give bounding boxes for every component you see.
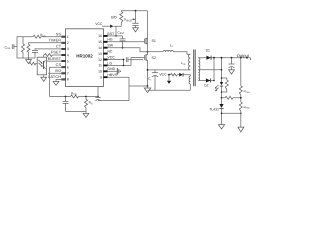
svg-text:BST: BST bbox=[107, 32, 115, 36]
svg-text:NC: NC bbox=[107, 50, 113, 54]
svg-text:11: 11 bbox=[98, 64, 102, 68]
svg-text:CT: CT bbox=[56, 45, 62, 49]
svg-text:LATCH: LATCH bbox=[48, 75, 61, 79]
svg-text:4: 4 bbox=[67, 53, 69, 57]
svg-text:SW: SW bbox=[107, 44, 113, 48]
svg-text:Output: Output bbox=[237, 53, 250, 58]
svg-text:FSET: FSET bbox=[51, 51, 62, 55]
svg-text:2: 2 bbox=[67, 41, 69, 45]
svg-text:9: 9 bbox=[100, 75, 102, 79]
svg-text:3: 3 bbox=[67, 47, 69, 51]
svg-text:S1: S1 bbox=[152, 39, 156, 43]
svg-text:m: m bbox=[183, 63, 185, 66]
svg-text:HR1002: HR1002 bbox=[76, 54, 93, 59]
svg-text:TL431: TL431 bbox=[209, 107, 219, 111]
svg-text:BURST: BURST bbox=[48, 57, 62, 61]
svg-text:15: 15 bbox=[98, 40, 102, 44]
svg-text:16: 16 bbox=[98, 34, 102, 38]
svg-text:VCC: VCC bbox=[95, 22, 103, 26]
svg-text:BO: BO bbox=[111, 16, 116, 20]
svg-text:r: r bbox=[172, 45, 173, 48]
svg-text:14: 14 bbox=[98, 46, 102, 50]
svg-text:7: 7 bbox=[67, 72, 69, 76]
svg-text:BUS: BUS bbox=[127, 19, 132, 22]
svg-text:12: 12 bbox=[98, 58, 102, 62]
svg-text:CS: CS bbox=[73, 93, 77, 96]
svg-text:TIMER: TIMER bbox=[49, 39, 62, 43]
svg-text:8: 8 bbox=[67, 78, 69, 82]
svg-text:CS: CS bbox=[56, 63, 62, 67]
svg-text:LG: LG bbox=[107, 61, 112, 65]
svg-text:BO: BO bbox=[55, 69, 61, 73]
svg-text:D1: D1 bbox=[206, 49, 210, 53]
svg-text:10: 10 bbox=[98, 70, 102, 74]
svg-text:HG: HG bbox=[107, 38, 113, 42]
svg-text:VCC: VCC bbox=[159, 73, 167, 77]
svg-text:1: 1 bbox=[67, 35, 69, 39]
svg-text:13: 13 bbox=[98, 52, 102, 56]
svg-text:6: 6 bbox=[67, 65, 69, 69]
svg-text:S2: S2 bbox=[152, 56, 156, 60]
svg-text:BST: BST bbox=[120, 32, 125, 35]
svg-text:D2: D2 bbox=[204, 84, 208, 88]
svg-text:VCC: VCC bbox=[107, 55, 115, 59]
svg-text:HBVS: HBVS bbox=[107, 73, 117, 77]
svg-text:SS: SS bbox=[7, 47, 11, 50]
svg-text:5: 5 bbox=[67, 59, 69, 63]
svg-text:SS: SS bbox=[56, 32, 62, 36]
svg-text:SS: SS bbox=[43, 35, 47, 38]
svg-text:GND: GND bbox=[107, 67, 115, 71]
